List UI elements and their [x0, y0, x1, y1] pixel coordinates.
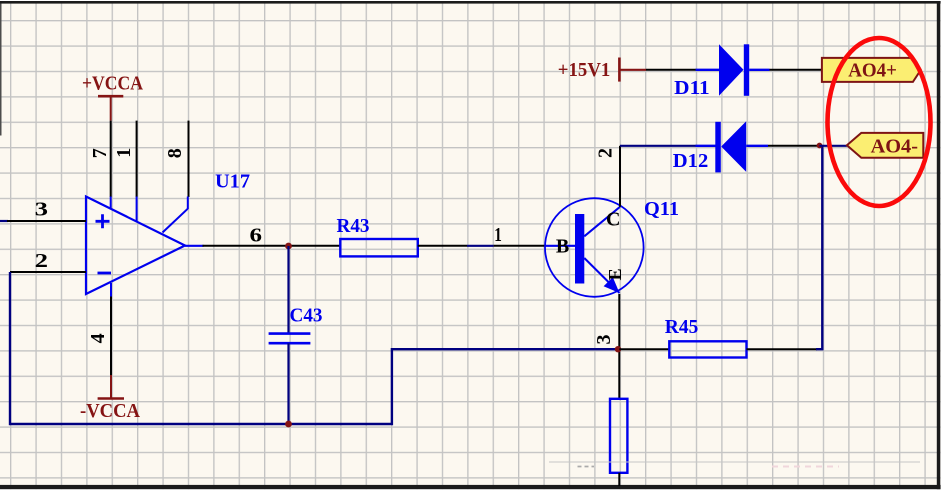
- node junction at output / C43 top: [285, 243, 292, 250]
- wire Q11 emitter down to node 3: [618, 294, 620, 399]
- op-amp U17 pin 4: [110, 283, 112, 297]
- svg-text:D12: D12: [673, 150, 709, 172]
- svg-text:1: 1: [494, 224, 502, 246]
- power -VCCA: [98, 375, 124, 399]
- node junction 3 (emitter / R45 / feedback): [615, 346, 621, 352]
- watermark remnants (decorative): [549, 461, 920, 463]
- svg-text:B: B: [556, 236, 569, 258]
- svg-text:3: 3: [593, 335, 615, 345]
- wire node to port AO4-: [820, 145, 847, 147]
- svg-text:2: 2: [595, 148, 617, 158]
- transistor Q11: [545, 198, 644, 297]
- sheet border frame (decorative): [0, 1, 941, 4]
- op-amp U17 body: [86, 197, 185, 295]
- svg-text:-VCCA: -VCCA: [80, 400, 141, 422]
- svg-text:4: 4: [87, 333, 109, 343]
- svg-text:R45: R45: [665, 316, 699, 338]
- wire op-amp output: [185, 245, 204, 247]
- svg-text:3: 3: [35, 199, 48, 221]
- svg-text:+VCCA: +VCCA: [82, 73, 143, 95]
- port AO4+: [822, 58, 921, 82]
- op-amp U17 pin 8: [188, 121, 190, 197]
- wire Q11 collector up: [619, 146, 621, 207]
- wire pin 3 input: [0, 220, 8, 222]
- wire D12 row from collector corner: [620, 145, 696, 147]
- node junction at bottom wire / C43 bottom: [285, 421, 292, 428]
- port AO4-: [847, 133, 923, 158]
- wire +15V1 to D11: [646, 69, 696, 71]
- wire C43 branch upper: [287, 246, 289, 333]
- red highlight ellipse: [828, 38, 931, 206]
- wire pin 2 input: [10, 271, 86, 273]
- svg-text:AO4-: AO4-: [871, 136, 918, 158]
- wire R45 to right riser: [747, 348, 818, 350]
- capacitor C43: [269, 334, 311, 344]
- resistor R44 (bottom, unlabeled): [610, 399, 627, 473]
- svg-text:AO4+: AO4+: [848, 59, 897, 81]
- power +VCCA: [98, 96, 123, 120]
- svg-text:R43: R43: [337, 215, 370, 237]
- svg-text:1: 1: [113, 148, 135, 158]
- svg-text:E: E: [605, 268, 625, 280]
- diode D12: [696, 145, 717, 147]
- resistor R45: [669, 341, 746, 357]
- node junction at AO4- branch: [817, 143, 823, 149]
- svg-text:U17: U17: [215, 171, 250, 193]
- svg-text:6: 6: [250, 225, 263, 247]
- svg-text:D11: D11: [674, 77, 710, 99]
- svg-text:C43: C43: [290, 304, 323, 326]
- wire feedback loop (left, bottom, up to node 3 row): [10, 272, 618, 424]
- svg-text:8: 8: [164, 148, 186, 158]
- wire D11 to port AO4+: [770, 69, 822, 71]
- wire resistor bottom to sheet edge: [618, 473, 620, 486]
- wire C43 branch lower: [287, 343, 289, 424]
- svg-text:C: C: [606, 208, 620, 230]
- wire R43 to Q11 base, net 1: [418, 245, 467, 247]
- svg-text:+15V1: +15V1: [558, 59, 611, 81]
- wire node 3 to R45: [619, 348, 669, 350]
- svg-text:Q11: Q11: [644, 198, 679, 220]
- svg-text:7: 7: [89, 148, 111, 158]
- diode D11: [696, 69, 720, 71]
- op-amp U17 pin 7: [110, 121, 112, 197]
- wire D12 to node: [768, 145, 818, 147]
- resistor R43: [340, 239, 418, 256]
- power +15V1: [619, 58, 646, 82]
- op-amp U17 pin 1: [136, 121, 138, 197]
- svg-text:2: 2: [35, 250, 48, 272]
- wire right riser up to D12 row: [816, 146, 822, 349]
